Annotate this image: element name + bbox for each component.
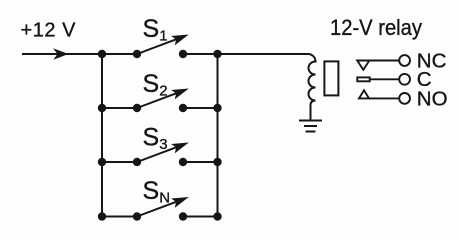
svg-text:12-V relay: 12-V relay xyxy=(330,15,422,40)
svg-text:NO: NO xyxy=(417,87,448,110)
svg-text:+12 V: +12 V xyxy=(21,20,77,42)
